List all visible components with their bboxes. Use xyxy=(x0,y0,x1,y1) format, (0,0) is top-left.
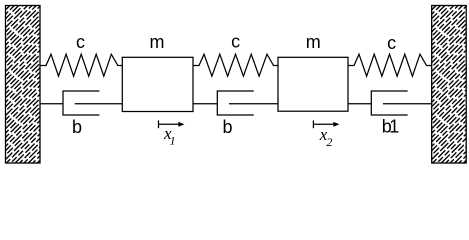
svg-text:m: m xyxy=(306,32,321,52)
svg-text:1: 1 xyxy=(170,134,176,148)
svg-text:c: c xyxy=(231,32,240,52)
svg-text:m: m xyxy=(150,32,165,52)
svg-text:c: c xyxy=(387,33,396,53)
svg-text:b: b xyxy=(222,117,232,137)
svg-text:b: b xyxy=(72,117,82,137)
svg-text:1: 1 xyxy=(389,117,399,137)
svg-text:2: 2 xyxy=(326,135,332,149)
svg-text:c: c xyxy=(76,32,85,52)
